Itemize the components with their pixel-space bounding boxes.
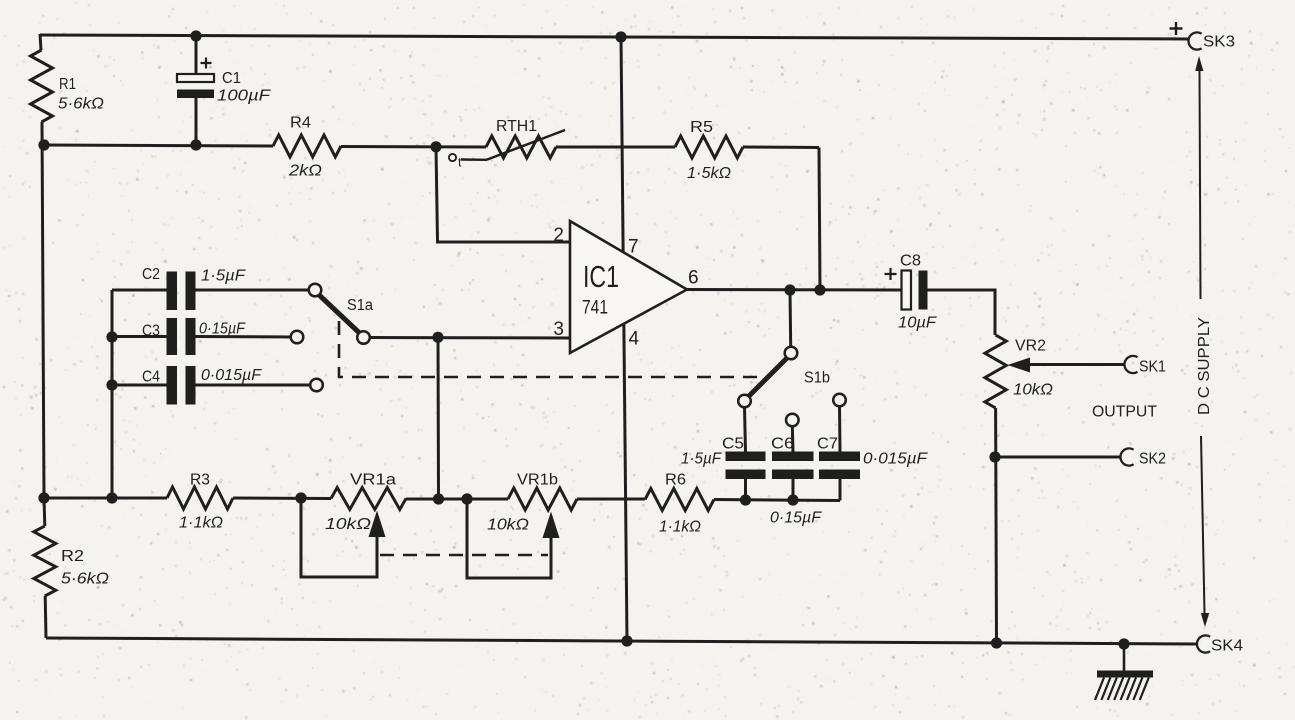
wire left rail middle [42, 122, 44, 498]
switch S1a contact C4 [310, 379, 323, 392]
capacitor C1 plate top [177, 74, 214, 82]
svg-text:1·1kΩ: 1·1kΩ [179, 515, 223, 532]
wire R3 to VR1a [233, 497, 331, 501]
wire top supply rail [40, 35, 1189, 39]
svg-text:S1b: S1b [804, 370, 830, 387]
capacitor C1 plate bottom [177, 90, 214, 99]
svg-text:4: 4 [629, 329, 640, 350]
resistor R4 [273, 135, 341, 157]
junction node 14 [787, 494, 798, 505]
svg-text:10kΩ: 10kΩ [1013, 382, 1053, 399]
svg-text:5·6kΩ: 5·6kΩ [61, 571, 109, 588]
wire pin2 branch [436, 147, 570, 242]
dashed gang link S1a [339, 321, 762, 377]
capacitor C6 plate bottom [772, 470, 814, 480]
switch S1b arm [749, 358, 787, 396]
junction node 15 [432, 332, 443, 343]
svg-text:1·5kΩ: 1·5kΩ [687, 165, 731, 182]
wire mid rail left segment [44, 145, 273, 146]
svg-text:2kΩ: 2kΩ [288, 163, 322, 180]
wire VR1a to VR1b [406, 498, 508, 501]
svg-text:10kΩ: 10kΩ [325, 516, 371, 533]
svg-text:VR1a: VR1a [350, 472, 396, 489]
switch S1b contact C6 [786, 414, 799, 427]
capacitor C2 plate right [186, 272, 196, 311]
wire feedback vertical [819, 148, 820, 291]
wire pin3 input [369, 336, 570, 340]
potentiometer VR1b [508, 488, 577, 510]
wire VR2 lower vertical [994, 408, 998, 643]
dashed gang link VR1a-VR1b [380, 554, 548, 557]
junction node 21 [1118, 638, 1129, 649]
svg-text:C5: C5 [722, 436, 744, 453]
svg-text:5·6kΩ: 5·6kΩ [58, 96, 104, 113]
label SK3 polarity + [1170, 22, 1183, 35]
switch S1b contact C5 [738, 395, 751, 408]
svg-text:C3: C3 [142, 323, 160, 340]
wire C7 bottom stem [839, 479, 842, 501]
junction node 19 [621, 635, 632, 646]
svg-text:0·015µF: 0·015µF [863, 451, 929, 468]
wire C5 bottom stem [744, 479, 747, 500]
junction node 2 [615, 31, 626, 42]
junction node 17 [814, 284, 825, 295]
dc supply arrow down [1201, 436, 1205, 613]
svg-text:SK4: SK4 [1211, 638, 1243, 655]
capacitor C7 plate bottom [819, 470, 860, 480]
capacitor C5 plate bottom [726, 470, 766, 480]
junction node 8 [38, 492, 49, 503]
thermistor RTH1 [486, 136, 556, 158]
svg-text:VR1b: VR1b [517, 472, 558, 489]
wire C3 row left [112, 335, 167, 338]
wire C6 bottom stem [792, 479, 795, 500]
switch S1a arm [317, 293, 360, 334]
svg-text:R6: R6 [665, 472, 686, 489]
wire R4 to RTH1 node [341, 145, 486, 149]
capacitor C4 plate left [167, 366, 178, 405]
resistor R5 [675, 136, 743, 158]
wire SK2 tap [995, 456, 1120, 459]
junction node 4 [190, 139, 201, 150]
thermistor RTH1 diagonal [486, 130, 565, 160]
wire op-amp output [687, 288, 902, 292]
svg-text:C7: C7 [817, 436, 838, 453]
capacitor C7 plate top [819, 452, 860, 462]
switch S1a contact C2 [309, 284, 322, 297]
wire C6 top stem [791, 426, 795, 452]
junction node 6 [106, 331, 117, 342]
wire C7 top stem [838, 406, 842, 452]
svg-text:C4: C4 [142, 369, 160, 386]
wire VR1a wiper loop [301, 498, 377, 577]
wire VR2 wiper to SK1 [1029, 363, 1124, 366]
svg-text:C8: C8 [900, 253, 921, 270]
ground symbol [1123, 644, 1126, 671]
junction node 3 [38, 139, 49, 150]
svg-text:3: 3 [553, 319, 564, 340]
svg-text:R2: R2 [61, 548, 84, 565]
wire pin7/pin4 vertical [621, 37, 627, 641]
wire S1b stem [789, 290, 793, 347]
resistor R2 [34, 526, 56, 596]
svg-text:SK1: SK1 [1139, 359, 1166, 376]
label C8 polarity + [885, 268, 897, 280]
switch S1b common contact [785, 347, 798, 360]
svg-text:SK2: SK2 [1139, 451, 1166, 468]
capacitor C8 plate right [919, 271, 928, 310]
svg-text:2: 2 [553, 225, 564, 246]
capacitor C2 plate left [167, 272, 178, 311]
wire VR1b to R6 [577, 498, 645, 501]
resistor R1 [31, 50, 53, 122]
potentiometer VR2 [985, 335, 1006, 408]
capacitor C3 plate left [167, 318, 178, 355]
svg-text:C1: C1 [222, 70, 241, 87]
junction node 10 [295, 492, 306, 503]
svg-text:OUTPUT: OUTPUT [1092, 404, 1158, 421]
switch S1a common contact [357, 331, 370, 344]
resistor R6 [645, 489, 714, 511]
junction node 13 [740, 494, 751, 505]
wire C5 top stem [745, 407, 746, 452]
svg-text:RTH1: RTH1 [496, 118, 537, 135]
socket SK3 [1188, 32, 1201, 49]
wire RTH1 to R5 [556, 146, 675, 149]
wire C4 row right [196, 384, 311, 387]
capacitor C3 plate right [186, 318, 196, 355]
junction node 11 [433, 493, 444, 504]
junction node 12 [461, 493, 472, 504]
socket SK1 [1124, 356, 1137, 373]
wire left rail lower to bottom [43, 498, 47, 526]
svg-text:R4: R4 [290, 115, 311, 132]
thermistor RTH1 temp circle [449, 154, 456, 161]
wire C2-C4 left bus [111, 290, 114, 498]
svg-text:IC1: IC1 [583, 259, 619, 294]
junction node 20 [991, 637, 1002, 648]
wire C3 row right [196, 335, 292, 339]
socket SK4 [1197, 635, 1210, 652]
wire pin3 node vertical [437, 338, 441, 500]
junction node 1 [190, 30, 201, 41]
capacitor C6 plate top [772, 452, 814, 462]
dc supply arrow up [1200, 71, 1201, 299]
potentiometer VR1a [331, 488, 406, 510]
svg-text:741: 741 [582, 297, 608, 319]
wire R6 to capacitor bank [714, 500, 840, 501]
capacitor C8 plate left [902, 271, 912, 310]
svg-text:0·015µF: 0·015µF [201, 367, 263, 384]
junction node 7 [106, 379, 117, 390]
junction node 16 [784, 284, 795, 295]
svg-text:t: t [458, 156, 462, 170]
svg-text:R5: R5 [690, 119, 713, 136]
svg-text:1·1kΩ: 1·1kΩ [659, 519, 701, 536]
svg-text:R1: R1 [59, 76, 76, 93]
potentiometer VR1b wiper arrow [543, 512, 560, 539]
label C1 polarity + [201, 58, 212, 69]
resistor R3 [167, 487, 233, 509]
wire R5 to feedback corner [743, 146, 819, 150]
svg-text:C2: C2 [142, 266, 160, 283]
wire C2 row left [112, 289, 167, 292]
wire left rail upper [40, 34, 41, 50]
junction node 5 [430, 141, 441, 152]
svg-text:S1a: S1a [347, 297, 373, 314]
svg-text:C6: C6 [771, 436, 794, 453]
potentiometer VR1a wiper arrow [369, 511, 386, 538]
svg-text:SK3: SK3 [1203, 34, 1235, 51]
switch S1a contact C3 [291, 331, 304, 344]
wire VR1b wiper loop [467, 499, 551, 578]
svg-text:10kΩ: 10kΩ [487, 517, 529, 534]
svg-text:10µF: 10µF [898, 315, 938, 332]
wire bottom rail [46, 638, 1198, 644]
junction node 9 [106, 492, 117, 503]
wire C4 row left [112, 384, 167, 387]
wire C8 to VR2 corner [928, 290, 996, 335]
wire C1 bottom stem [195, 98, 198, 145]
capacitor C4 plate right [186, 366, 196, 405]
potentiometer VR2 wiper arrow [1008, 358, 1031, 373]
junction node 18 [989, 451, 1000, 462]
svg-text:0·15µF: 0·15µF [770, 510, 823, 527]
svg-text:VR2: VR2 [1015, 338, 1046, 355]
svg-text:0·15µF: 0·15µF [199, 321, 246, 338]
wire bottom row left [44, 497, 167, 500]
svg-text:1·5µF: 1·5µF [201, 268, 247, 285]
socket SK2 [1120, 448, 1133, 465]
svg-text:1·5µF: 1·5µF [681, 451, 722, 468]
op-amp IC1 body [570, 221, 687, 353]
svg-text:R3: R3 [190, 472, 210, 489]
capacitor C5 plate top [726, 452, 766, 462]
wire C2 row right [196, 289, 310, 292]
svg-text:D C SUPPLY: D C SUPPLY [1196, 317, 1213, 415]
svg-text:100µF: 100µF [217, 88, 272, 105]
switch S1b contact C7 [833, 394, 846, 407]
svg-text:7: 7 [628, 237, 639, 258]
wire C1 top stem [195, 36, 198, 75]
svg-text:6: 6 [688, 268, 699, 289]
